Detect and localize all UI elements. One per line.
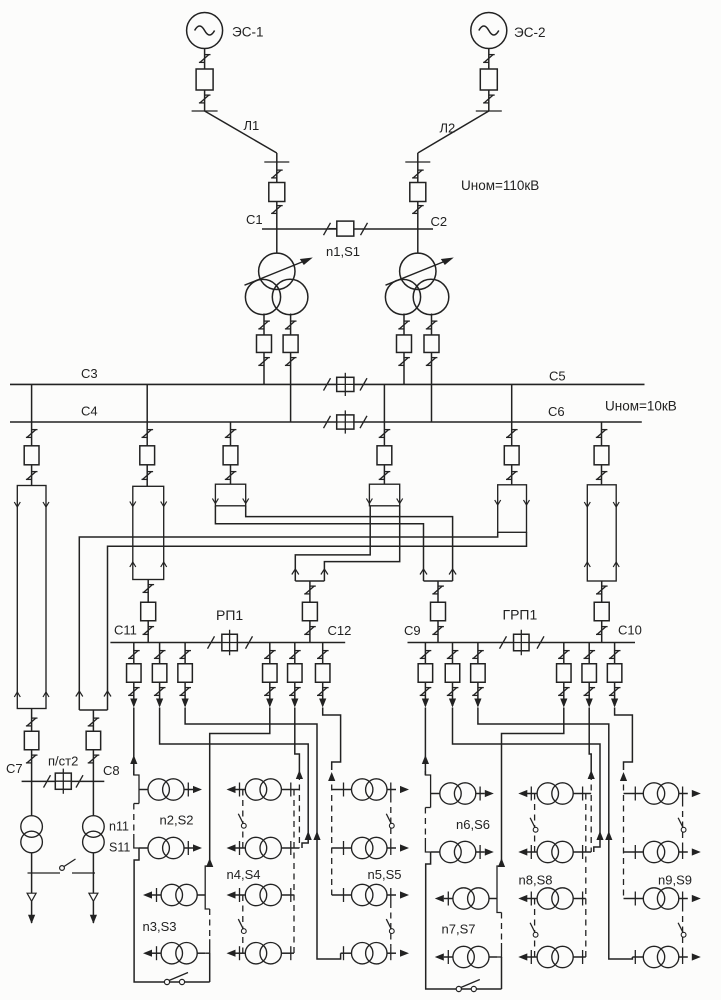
svg-text:Л2: Л2	[440, 121, 456, 136]
svg-text:С4: С4	[81, 404, 98, 419]
svg-text:п/ст2: п/ст2	[48, 754, 78, 769]
svg-text:Uном=110кВ: Uном=110кВ	[461, 178, 539, 193]
svg-text:С10: С10	[618, 623, 642, 638]
svg-text:n1,S1: n1,S1	[326, 244, 360, 259]
svg-text:n6,S6: n6,S6	[456, 817, 490, 832]
svg-text:С5: С5	[549, 369, 566, 384]
svg-text:С11: С11	[114, 623, 137, 638]
svg-text:Л1: Л1	[244, 118, 260, 133]
svg-text:n11: n11	[109, 820, 129, 834]
svg-text:ЭС-2: ЭС-2	[514, 25, 545, 40]
svg-text:n8,S8: n8,S8	[519, 873, 553, 888]
svg-text:Uном=10кВ: Uном=10кВ	[605, 399, 677, 414]
svg-text:С2: С2	[431, 214, 448, 229]
svg-text:С1: С1	[246, 212, 263, 227]
svg-text:n4,S4: n4,S4	[227, 867, 261, 882]
svg-text:С3: С3	[81, 366, 98, 381]
svg-text:S11: S11	[109, 841, 130, 855]
svg-text:С12: С12	[328, 623, 352, 638]
svg-text:С9: С9	[404, 623, 421, 638]
svg-text:С8: С8	[103, 763, 120, 778]
svg-text:ГРП1: ГРП1	[503, 607, 538, 623]
svg-text:n5,S5: n5,S5	[368, 867, 402, 882]
svg-text:n7,S7: n7,S7	[442, 922, 476, 937]
svg-text:ЭС-1: ЭС-1	[232, 25, 263, 40]
svg-text:n3,S3: n3,S3	[143, 919, 177, 934]
svg-text:n9,S9: n9,S9	[658, 873, 692, 888]
svg-text:С7: С7	[6, 761, 23, 776]
svg-text:С6: С6	[548, 404, 565, 419]
svg-text:n2,S2: n2,S2	[160, 813, 194, 828]
svg-text:РП1: РП1	[216, 607, 243, 623]
